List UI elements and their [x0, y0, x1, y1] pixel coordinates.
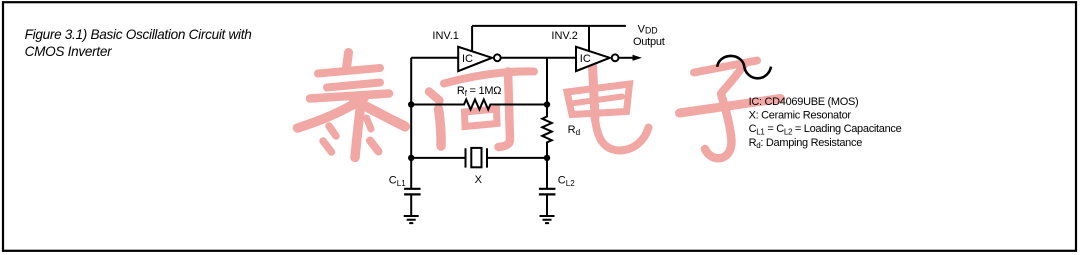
capacitor CL1 [404, 189, 421, 195]
capacitor CL2 [539, 189, 556, 195]
svg-text:VDD: VDD [638, 24, 658, 36]
svg-text:IC: IC [580, 53, 591, 65]
svg-text:IC: IC [462, 53, 473, 65]
svg-text:CMOS Inverter: CMOS Inverter [25, 44, 113, 59]
svg-text:X: X [475, 174, 483, 186]
svg-text:Rd: Damping Resistance: Rd: Damping Resistance [749, 137, 863, 150]
wire: output with arrow [619, 57, 634, 59]
wire: INV.1 output to INV.2 input [501, 57, 576, 59]
wire below CL1 [410, 194, 412, 216]
ground symbol under CL1 [404, 216, 419, 223]
svg-text:CL1: CL1 [389, 175, 406, 188]
svg-text:Figure 3.1) Basic Oscillation: Figure 3.1) Basic Oscillation Circuit wi… [25, 27, 252, 42]
resonator line right [488, 157, 548, 159]
wire: main input line to INV.1 [411, 57, 458, 59]
svg-text:INV.2: INV.2 [551, 30, 578, 42]
wire: feedback junction drop [546, 58, 548, 105]
svg-text:Rf = 1MΩ: Rf = 1MΩ [457, 85, 501, 98]
svg-text:Output: Output [633, 36, 665, 48]
svg-text:INV.1: INV.1 [432, 30, 459, 42]
junction node B (right, Rf feedback line) [544, 101, 550, 107]
wire: VDD drop to INV.1 [471, 26, 473, 52]
inverter INV.1 triangle [458, 47, 492, 71]
inverter INV.1 bubble [494, 54, 501, 61]
junction node A (left, Rf feedback line) [408, 101, 414, 107]
svg-text:IC: CD4069UBE (MOS): IC: CD4069UBE (MOS) [749, 96, 859, 108]
junction node C (left, resonator line) [408, 155, 414, 161]
junction node D (right, resonator line) [544, 155, 550, 161]
wire: VDD drop to INV.2 [588, 26, 590, 52]
watermark char 1 (tai) [298, 53, 406, 158]
svg-text:X: Ceramic Resonator: X: Ceramic Resonator [749, 110, 852, 122]
watermark char 3 (dian) [567, 65, 649, 151]
svg-text:CL1 = CL2 = Loading Capacitanc: CL1 = CL2 = Loading Capacitance [749, 123, 902, 136]
ground symbol under CL2 [540, 216, 555, 223]
wire below CL2 [546, 194, 548, 216]
svg-text:Rd: Rd [568, 124, 581, 137]
wire: right vertical below Rd to CL2 [546, 158, 548, 188]
output arrowhead [633, 55, 643, 61]
sine-wave oscillator symbol [717, 56, 771, 78]
resistor Rf (feedback wire with zigzag) [411, 100, 547, 110]
resistor Rd (vertical zigzag) [542, 105, 552, 158]
watermark char 2 (he) [429, 71, 534, 147]
wire: VDD rail [472, 25, 626, 27]
resonator X electrode plates [466, 148, 488, 167]
inverter INV.2 triangle [576, 47, 610, 71]
wire: left vertical rail [410, 58, 412, 188]
svg-text:CL2: CL2 [558, 175, 575, 188]
inverter INV.2 bubble [612, 54, 619, 61]
resonator X crystal body [471, 148, 481, 167]
watermark char 4 (zi) [680, 61, 781, 159]
resonator line left [411, 157, 464, 159]
